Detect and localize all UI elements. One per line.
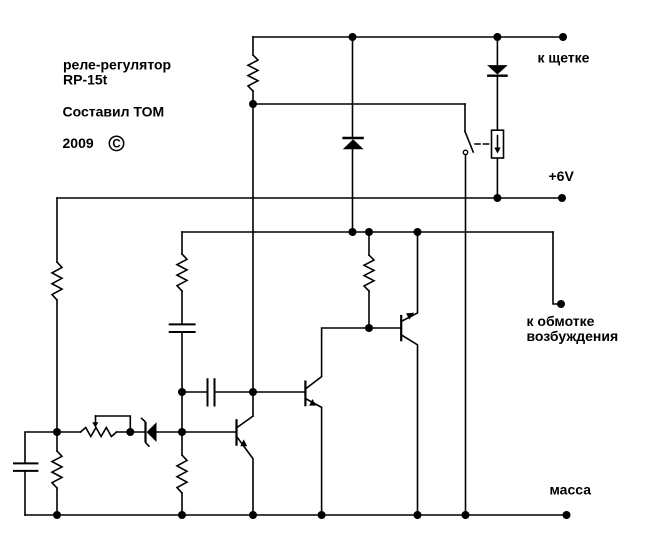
- wire x=57 middle: [56, 300, 58, 451]
- resistor R6: [364, 255, 374, 291]
- transistor Q2 collector: [305, 328, 369, 389]
- svg-text:к щетке: к щетке: [538, 49, 590, 65]
- capacitor C3: [208, 379, 215, 405]
- node rail232 / Q3 emitter: [414, 228, 422, 236]
- diode D2 (middle): [342, 137, 363, 139]
- transistor Q2 emitter arrow: [309, 399, 316, 406]
- node rail232 / D2: [349, 228, 357, 236]
- svg-text:C: C: [112, 139, 120, 151]
- wire R5 to C2: [181, 291, 183, 324]
- relay coil arrow: [497, 135, 499, 148]
- wire base line y=432 to potentiometer: [57, 431, 81, 433]
- wire y=392 C3 branch: [182, 391, 208, 393]
- wire switch drop: [464, 104, 466, 131]
- transistor Q1 collector: [237, 416, 253, 427]
- relay coil K1 box: [492, 130, 504, 158]
- transistor Q3 emitter arrow: [406, 313, 414, 320]
- node gnd Q1 emitter: [249, 511, 257, 519]
- wire C2 down through junctions: [181, 332, 183, 455]
- resistor R3: [52, 451, 62, 488]
- wire rail y=232: [182, 231, 553, 233]
- potentiometer wiper arrow: [95, 416, 97, 424]
- node gnd R4: [178, 511, 186, 519]
- wire +6V rail y=198: [57, 197, 562, 199]
- potentiometer wiper bracket: [96, 416, 131, 432]
- node zener right: [178, 428, 186, 436]
- wire x=352 bottom: [352, 150, 354, 233]
- svg-text:возбуждения: возбуждения: [527, 328, 619, 344]
- wire relay box to +6V: [496, 158, 498, 198]
- wire left vertical x=57 upper: [56, 198, 58, 262]
- wire R6 to Q3 base node: [368, 291, 370, 328]
- svg-text:2009: 2009: [63, 135, 94, 151]
- node gnd R3: [53, 511, 61, 519]
- node C3 left: [178, 388, 186, 396]
- transistor Q3 collector (down): [401, 335, 417, 515]
- svg-text:масса: масса: [550, 481, 592, 497]
- wire pot right to zener: [117, 431, 145, 433]
- transistor Q2 bar: [304, 382, 306, 406]
- node divider left: [53, 428, 61, 436]
- transistor Q1 emitter arrow: [240, 439, 247, 446]
- node top rail / diode branch: [349, 33, 357, 41]
- wire zener to x=182: [157, 431, 237, 433]
- terminal к щетке: [559, 33, 567, 41]
- node top rail / D1 branch: [493, 33, 501, 41]
- wire top rail y=37: [253, 36, 563, 38]
- wire y=104 from R1 bottom to switch: [253, 103, 465, 105]
- potentiometer RP zigzag: [81, 428, 117, 437]
- transistor Q1 emitter: [237, 437, 253, 515]
- terminal +6V: [558, 194, 566, 202]
- resistor R2: [52, 262, 62, 300]
- node R1 bottom: [249, 100, 257, 108]
- terminal масса: [563, 511, 571, 519]
- diode D1 (to brush): [487, 65, 508, 74]
- svg-text:Составил ТОМ: Составил ТОМ: [63, 104, 165, 120]
- node gnd Q3 collector: [414, 511, 422, 519]
- wire to excitation winding terminal: [553, 232, 560, 304]
- switch blade: [465, 131, 473, 152]
- wire x=253 top: [252, 37, 254, 55]
- wire to C1: [25, 432, 57, 463]
- node C3 right / Q1 collector: [249, 388, 257, 396]
- transistor Q3 bar: [400, 316, 402, 340]
- wire Q3 base: [369, 327, 401, 329]
- wire bottom rail y=515: [25, 514, 567, 516]
- resistor R5: [177, 254, 187, 291]
- wire x=369 from rail 232: [368, 232, 370, 255]
- svg-text:к обмотке: к обмотке: [527, 313, 595, 329]
- zener diode VD3: [144, 422, 146, 443]
- copyright circle: [109, 136, 123, 150]
- wire C3 to Q2 base: [215, 391, 306, 393]
- transistor Q2 emitter: [305, 399, 321, 516]
- node pot wiper: [126, 428, 134, 436]
- resistor R1: [248, 55, 258, 91]
- svg-text:+6V: +6V: [549, 168, 575, 184]
- node +6V / relay: [493, 194, 501, 202]
- switch contact circle: [463, 150, 467, 154]
- node gnd switch wire: [462, 511, 470, 519]
- wire x=57 lower: [56, 488, 58, 515]
- wire x=497 top: [496, 37, 498, 65]
- wire x=352 top: [352, 37, 354, 138]
- capacitor C2: [170, 324, 195, 332]
- node rail232 / R6: [365, 228, 373, 236]
- transistor Q1 bar: [235, 420, 237, 444]
- terminal к обмотке: [557, 300, 565, 308]
- potentiometer arrow head: [92, 422, 98, 427]
- node Q3 base: [365, 324, 373, 332]
- capacitor C1: [14, 463, 37, 471]
- wire C1 to ground rail: [24, 471, 26, 515]
- wire switch contact down: [465, 155, 467, 515]
- svg-text:RP-15t: RP-15t: [63, 72, 108, 88]
- wire x=182 from rail 232: [181, 232, 183, 254]
- node gnd Q2 emitter: [318, 511, 326, 519]
- relay dashed actuator link: [475, 143, 492, 145]
- resistor R4: [177, 455, 187, 493]
- svg-text:реле-регулятор: реле-регулятор: [63, 57, 171, 73]
- wire x=253 long vertical: [252, 91, 254, 416]
- wire R4 to ground rail: [181, 493, 183, 515]
- wire D1 to relay box: [496, 76, 498, 130]
- transistor Q3 emitter (up): [401, 232, 417, 322]
